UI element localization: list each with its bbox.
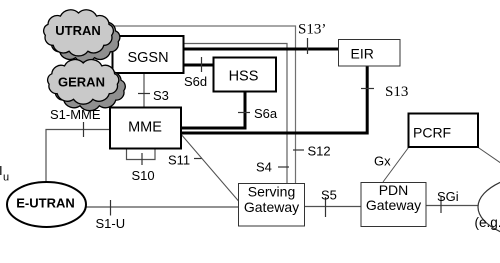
tick S12 <box>293 149 304 151</box>
svg-text:Gateway: Gateway <box>244 199 299 215</box>
svg-text:UTRAN: UTRAN <box>55 23 101 38</box>
box SGSN <box>113 36 184 73</box>
tick SGi <box>440 197 442 213</box>
svg-text:EIR: EIR <box>351 46 374 62</box>
svg-text:S4: S4 <box>256 160 272 175</box>
svg-text:Serving: Serving <box>248 184 295 200</box>
wire S10 self-loop on MME <box>127 149 156 160</box>
svg-text:S13: S13 <box>385 84 408 100</box>
svg-text:u: u <box>3 172 9 184</box>
svg-text:S13’: S13’ <box>298 22 326 38</box>
tick S3 <box>138 93 150 95</box>
tick S10 <box>141 153 143 165</box>
svg-text:S6d: S6d <box>184 74 207 89</box>
box PCRF <box>409 114 479 148</box>
tick S5 <box>325 197 327 217</box>
ellipse E-UTRAN <box>7 182 86 227</box>
wire S5 (Serving GW to PDN GW) <box>305 206 362 208</box>
wire Gx diagonal (PCRF to PDN GW) <box>383 148 409 183</box>
wire S4 routing (SGSN to Serving GW) <box>184 44 287 185</box>
svg-text:PCRF: PCRF <box>413 125 451 141</box>
wire S1-MME (E-UTRAN to MME) <box>46 130 110 183</box>
svg-text:GERAN: GERAN <box>58 75 105 90</box>
svg-text:(e.g. IMS,: (e.g. IMS, <box>475 215 500 230</box>
svg-text:S5: S5 <box>321 188 337 203</box>
svg-text:Gateway: Gateway <box>366 197 421 213</box>
tick S13 <box>361 88 374 90</box>
box PDN Gateway <box>361 183 426 227</box>
svg-text:S1-MME: S1-MME <box>50 107 101 122</box>
wire S3 (SGSN to MME) <box>143 73 145 107</box>
wire S13 thick (MME to EIR) <box>181 66 367 133</box>
tick S13' <box>307 38 309 54</box>
svg-text:E-UTRAN: E-UTRAN <box>16 196 75 211</box>
svg-text:S1-U: S1-U <box>96 216 126 231</box>
cloud GERAN shadow <box>54 66 125 111</box>
svg-text:S10: S10 <box>132 168 155 183</box>
tick S1-U <box>110 200 112 216</box>
svg-text:S12: S12 <box>308 144 331 159</box>
svg-text:S3: S3 <box>153 88 169 103</box>
svg-text:S6a: S6a <box>254 106 278 121</box>
wire S13' thick (SGSN to EIR) <box>184 48 339 51</box>
box HSS <box>214 58 277 92</box>
wire SGi (PDN GW to IP services) <box>426 205 479 207</box>
tick S6d <box>201 57 203 72</box>
svg-text:S11: S11 <box>168 153 190 168</box>
box EIR <box>339 40 401 67</box>
tick S1-MME <box>83 122 85 137</box>
svg-text:Gx: Gx <box>374 154 391 169</box>
svg-text:SGi: SGi <box>437 189 459 204</box>
tick S11 <box>194 158 202 160</box>
ellipse Operator IP services (partial, right edge) <box>478 170 500 244</box>
wire S11 diagonal (MME to Serving GW) <box>180 133 239 201</box>
tick S6a <box>238 112 250 114</box>
svg-text:MME: MME <box>128 120 162 136</box>
svg-text:SGSN: SGSN <box>127 50 168 66</box>
box Serving Gateway <box>239 184 305 227</box>
svg-text:PDN: PDN <box>379 182 409 198</box>
svg-text:HSS: HSS <box>229 69 259 85</box>
cloud UTRAN shadow <box>50 16 120 62</box>
tick S4 <box>278 166 289 168</box>
wire S6a thick (HSS to MME) <box>181 92 245 128</box>
wire Rx diagonal (PCRF to IP services) <box>478 147 500 168</box>
wire S12 routing (UTRAN to Serving GW) <box>95 26 296 184</box>
wire S1-U (E-UTRAN to Serving GW) <box>84 206 238 208</box>
wire S6d thick (SGSN to HSS) <box>184 64 213 67</box>
box MME <box>110 108 181 149</box>
cloud GERAN <box>48 60 119 105</box>
cloud UTRAN <box>44 10 114 56</box>
